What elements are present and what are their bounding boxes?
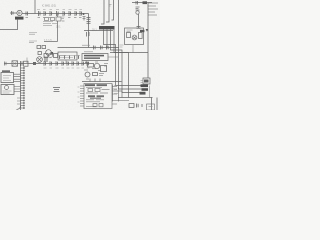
resistor R17	[101, 66, 107, 72]
svg-text:IC 8801 (2/2): IC 8801 (2/2)	[42, 5, 56, 8]
output arrow 3	[140, 92, 146, 95]
capacitor C11	[87, 18, 91, 20]
capacitor C29 dark pair	[45, 57, 47, 63]
transistor Q2 blob	[51, 52, 54, 55]
node B junction	[33, 62, 36, 65]
capacitor C18	[21, 61, 23, 66]
transistor Q2	[46, 50, 52, 56]
wire upper mid	[44, 41, 58, 43]
IC U2 pins	[14, 74, 21, 82]
capacitor C9	[75, 11, 77, 16]
wire resistor row rail	[57, 55, 80, 57]
label near bundle	[120, 45, 124, 47]
IC U4 small box 2	[95, 89, 100, 92]
capacitor C14	[137, 27, 141, 29]
capacitor C6	[57, 11, 59, 16]
box right small dark	[144, 80, 149, 83]
wire R3 drop	[57, 21, 59, 42]
connector J1 pin 9	[21, 87, 25, 89]
label marks under bus	[43, 17, 65, 26]
resistor R2	[51, 18, 55, 21]
connector J1 pin 8	[21, 85, 25, 87]
IC U4 pins left	[80, 86, 84, 106]
speckle labels top bus	[37, 9, 82, 11]
resistor R8	[38, 52, 41, 55]
capacitor C12	[87, 22, 91, 24]
capacitor C24	[72, 61, 74, 65]
wire drop x57.5	[57, 14, 59, 18]
wire crossing vertical 1	[112, 85, 114, 102]
wire box stub down	[132, 45, 134, 53]
wire drop x152	[151, 98, 153, 111]
fuse F1	[143, 1, 148, 4]
capacitor C22	[62, 61, 64, 65]
IC U4 mid row 2	[90, 98, 101, 99]
resistor R10	[54, 54, 58, 58]
box bottom right corner	[147, 104, 155, 110]
IC U4 box	[84, 84, 112, 109]
resistor R9	[44, 54, 48, 58]
IC U4 small box 3	[93, 104, 97, 107]
resistor R3	[56, 17, 61, 21]
wire top bus	[22, 13, 89, 15]
wire P1	[104, 30, 141, 86]
connector J1 pin 15	[21, 102, 25, 104]
connector J1 pin 14	[21, 100, 25, 102]
cap value specks	[26, 18, 82, 22]
capacitor C28	[137, 104, 143, 108]
wire bottom curve	[17, 106, 21, 110]
label F mark	[109, 5, 112, 7]
wire bottom right rail	[118, 97, 153, 99]
speckle pin numbers U4 left	[78, 87, 80, 102]
capacitor C16	[101, 46, 103, 50]
capacitor C15	[94, 46, 96, 50]
small marks cluster	[84, 62, 108, 82]
speckle labels lower bus	[44, 67, 90, 69]
wire lower bus	[4, 63, 89, 65]
wire drop x157	[156, 98, 158, 111]
label above W2	[82, 44, 90, 46]
label H.OUT	[127, 30, 133, 32]
crystal X1	[17, 10, 22, 15]
label left of box	[141, 81, 143, 83]
transistor Q3 leads	[38, 58, 41, 61]
label dark row 2	[84, 57, 100, 59]
output arrow 1	[141, 84, 149, 87]
capacitor Ca	[86, 32, 88, 37]
wire P3	[111, 30, 140, 93]
capacitor C5	[50, 11, 52, 16]
wire vertical feed	[34, 0, 36, 14]
wire audio stub	[85, 61, 87, 64]
wire L1 top right	[101, 0, 104, 24]
capacitor C20	[50, 61, 52, 65]
IC U2 inner text	[3, 76, 11, 81]
wire from X1 to left edge	[0, 20, 18, 30]
svg-text:4.5 2.2k: 4.5 2.2k	[44, 39, 53, 41]
wire P2 drop	[106, 30, 108, 48]
connector J1 pin 10	[21, 90, 25, 92]
IC U4 dark mid row	[88, 95, 95, 97]
label box X1 value	[15, 17, 24, 20]
resistor R11	[59, 56, 61, 59]
capacitor C21	[56, 61, 58, 65]
output arrow 2	[142, 88, 149, 91]
IC U3 box	[1, 85, 14, 95]
resistor R19	[129, 104, 134, 108]
transistor Q5	[94, 63, 99, 68]
IC U4 small box 4	[99, 104, 103, 107]
wire arrow3 left extension	[113, 90, 123, 92]
transistor Q1 leads	[133, 36, 136, 39]
wire vertical x20	[20, 64, 22, 111]
box bottom right inner mark	[149, 106, 153, 108]
capacitor C30	[5, 62, 7, 66]
capacitor C7	[63, 11, 65, 16]
capacitor C19	[44, 61, 46, 65]
resistor R16	[88, 64, 94, 68]
resistor R6	[37, 46, 41, 49]
capacitor C27	[87, 61, 89, 65]
resistor R20	[24, 61, 29, 66]
connector E1	[136, 7, 140, 10]
label dark row 1	[84, 55, 104, 57]
connector J1 pin 11	[21, 92, 25, 94]
diode D2	[146, 29, 149, 32]
box H-DEF outline	[125, 28, 144, 45]
connector left ticks	[17, 98, 21, 104]
transistor Q3	[37, 57, 43, 63]
IC U4 small box 1	[88, 89, 93, 92]
diode D1	[83, 17, 86, 21]
parts list text top right	[148, 3, 158, 15]
capacitor C25	[77, 61, 79, 65]
label specks right of U4	[114, 86, 118, 94]
connector J1 pin 12	[21, 95, 25, 97]
capacitor C2	[26, 12, 28, 16]
crystal X2 cross	[12, 61, 18, 66]
scan noise texture	[0, 0, 160, 110]
crystal X1 internal mark	[18, 12, 21, 15]
connector J1 pin 2	[21, 70, 25, 72]
capacitor C23	[67, 61, 69, 65]
connector J1 pin 16	[21, 105, 25, 107]
svg-text:20.1: 20.1	[92, 29, 97, 32]
IC U4 header dark	[85, 84, 95, 86]
capacitor C3	[39, 11, 41, 16]
connector J1 pin 7	[21, 82, 25, 84]
resistor R5	[139, 33, 143, 39]
IC U4 pins right	[112, 87, 129, 105]
wire P4	[114, 30, 129, 98]
capacitor Cb	[88, 32, 90, 36]
wire stub above bus	[26, 58, 28, 64]
IC U3 inner text	[3, 91, 12, 93]
label above audio box	[84, 51, 93, 53]
IC U3 inner circle	[5, 86, 9, 90]
wire W2	[58, 48, 142, 90]
transistor Q1	[132, 35, 137, 40]
connector J1 pin 6	[21, 80, 25, 82]
IC U4 text rows	[86, 87, 110, 106]
wire mid cross	[110, 52, 148, 54]
wire L2 top right	[106, 0, 109, 22]
capacitor C26	[82, 61, 84, 65]
resistor R14	[74, 56, 76, 59]
connector J1 pin 5	[21, 77, 25, 79]
label dark mark	[140, 30, 144, 32]
connector J1 pin 4	[21, 75, 25, 77]
wire right long vertical	[147, 3, 149, 78]
wire arrows right stub	[149, 86, 151, 98]
wire horizontal y30	[84, 30, 113, 32]
resistor R15	[78, 56, 80, 59]
capacitor C10	[80, 11, 82, 16]
label in delay box	[60, 56, 73, 58]
IC U2 label	[2, 70, 10, 72]
wire audio box to bundle	[108, 56, 119, 58]
IC U2 box	[1, 73, 14, 83]
wire crossing vertical 2	[118, 88, 120, 102]
transistor Q6	[85, 72, 90, 77]
resistor R13	[69, 56, 71, 59]
node A junction	[83, 13, 85, 15]
capacitor C8	[69, 11, 71, 16]
capacitor C4	[44, 11, 46, 16]
resistor R4	[127, 33, 131, 38]
capacitor C17	[107, 46, 109, 50]
connector J1 pin 17	[21, 107, 25, 109]
svg-text:20.1: 20.1	[56, 27, 61, 29]
wire bottom rail mid	[82, 81, 122, 83]
crystal X2	[12, 61, 18, 66]
connector J1 pin 3	[21, 72, 25, 74]
box audio amp	[82, 54, 108, 61]
wire crossing vertical 3	[121, 91, 123, 98]
capacitor C1	[12, 11, 14, 15]
connector E1 circle	[136, 11, 139, 14]
connector J1 pin 13	[21, 97, 25, 99]
capacitor C13	[136, 1, 138, 5]
resistor R1	[45, 18, 49, 21]
box delay line	[58, 52, 77, 60]
wire long vertical	[118, 0, 120, 48]
wire from connector down	[138, 14, 140, 28]
transistor Q4	[49, 54, 53, 58]
wire top right rail	[132, 2, 152, 4]
label small left	[29, 33, 37, 43]
box right small	[143, 78, 150, 84]
resistor R18	[93, 73, 98, 76]
IC U3 pins	[14, 87, 21, 92]
connector J1 pin 1	[21, 67, 25, 69]
wire delay box stub	[65, 60, 67, 64]
wire main vertical	[88, 14, 90, 48]
resistor R12	[64, 56, 66, 59]
wire L3 top right	[112, 0, 114, 20]
label box dark	[99, 26, 115, 29]
wire left lead	[10, 12, 17, 14]
label IC note	[53, 88, 60, 92]
resistor R7	[42, 46, 46, 49]
